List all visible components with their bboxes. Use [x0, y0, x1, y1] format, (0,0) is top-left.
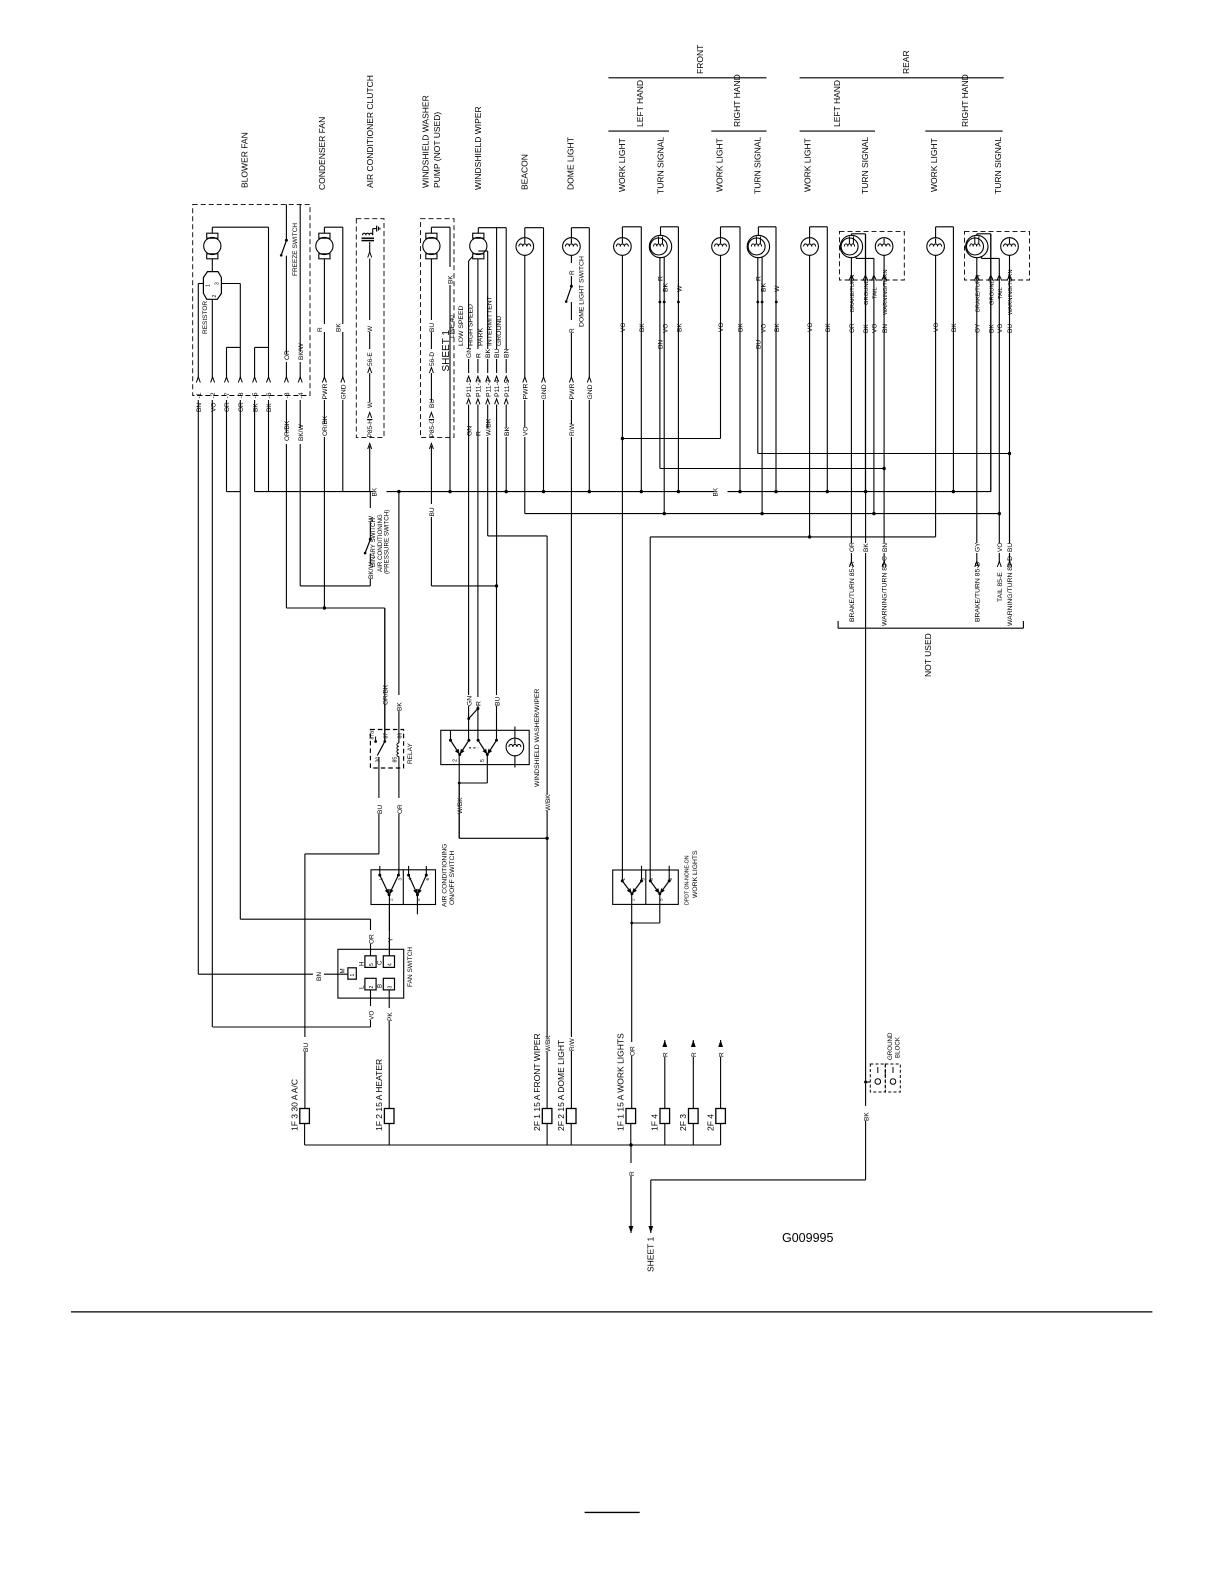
svg-text:4: 4 [388, 963, 394, 966]
svg-text:RIGHT HAND: RIGHT HAND [732, 74, 742, 127]
svg-text:BU: BU [494, 348, 501, 358]
svg-text:WORK LIGHTS: WORK LIGHTS [692, 850, 699, 898]
svg-text:BK: BK [639, 323, 646, 332]
svg-text:1F 2 15 A HEATER: 1F 2 15 A HEATER [374, 1059, 384, 1131]
svg-text:CONDENSER FAN: CONDENSER FAN [317, 117, 327, 190]
svg-text:BK: BK [335, 323, 342, 332]
svg-text:VO: VO [807, 323, 814, 332]
svg-text:FRONT: FRONT [695, 45, 705, 74]
svg-text:BK: BK [372, 487, 379, 496]
svg-text:BU: BU [1007, 324, 1014, 333]
svg-text:VO: VO [933, 323, 940, 332]
svg-text:2: 2 [453, 759, 459, 762]
svg-text:OR/BK: OR/BK [383, 684, 390, 705]
svg-text:3: 3 [640, 878, 645, 881]
svg-text:C: C [377, 960, 384, 965]
svg-text:BK: BK [825, 323, 832, 332]
svg-text:DPDT ON-NONE-ON: DPDT ON-NONE-ON [684, 855, 690, 905]
svg-text:PUMP (NOT USED): PUMP (NOT USED) [432, 112, 442, 188]
svg-text:G009995: G009995 [782, 1231, 833, 1245]
svg-text:OR: OR [849, 323, 856, 333]
svg-text:DOME LIGHT: DOME LIGHT [566, 137, 576, 190]
svg-text:WINDSHIELD WIPER: WINDSHIELD WIPER [473, 106, 483, 190]
svg-text:TAIL: TAIL [873, 286, 879, 299]
svg-text:LOW SPEED: LOW SPEED [458, 305, 465, 346]
svg-text:P11-3: P11-3 [485, 379, 492, 397]
svg-text:2F 1 15 A FRONT WIPER: 2F 1 15 A FRONT WIPER [532, 1033, 542, 1131]
svg-text:GN: GN [466, 696, 473, 706]
svg-text:1: 1 [206, 284, 212, 287]
svg-text:56-D: 56-D [429, 352, 436, 366]
svg-text:R/W: R/W [569, 1038, 576, 1052]
svg-text:R: R [476, 701, 483, 706]
svg-text:LINE 40: LINE 40 [449, 315, 456, 338]
svg-text:87: 87 [383, 733, 389, 739]
svg-text:W/BK: W/BK [486, 418, 493, 436]
svg-text:1: 1 [350, 974, 356, 977]
svg-text:-4: -4 [298, 392, 305, 398]
svg-text:5: 5 [416, 898, 421, 901]
svg-text:B: B [377, 984, 384, 988]
svg-text:56-E: 56-E [367, 352, 374, 366]
svg-text:86: 86 [398, 733, 404, 739]
svg-text:Y: Y [387, 937, 394, 942]
svg-text:BN: BN [658, 340, 665, 349]
svg-text:VO: VO [620, 323, 627, 332]
svg-text:BRAKE/TURN 85-B: BRAKE/TURN 85-B [974, 561, 981, 622]
svg-text:P11-2: P11-2 [476, 379, 483, 397]
svg-text:R: R [663, 1052, 670, 1057]
svg-text:-2: -2 [210, 392, 217, 398]
svg-text:BK/W: BK/W [298, 424, 305, 441]
svg-text:PARK: PARK [477, 328, 484, 346]
svg-text:BK: BK [774, 323, 781, 332]
svg-text:OR: OR [397, 804, 404, 814]
svg-text:TURN SIGNAL: TURN SIGNAL [656, 137, 666, 194]
svg-text:NOT USED: NOT USED [923, 633, 933, 677]
svg-text:GY: GY [974, 542, 981, 552]
svg-text:P85-G: P85-G [429, 419, 436, 438]
svg-text:BRAKE/TURN: BRAKE/TURN [975, 275, 981, 312]
svg-text:2: 2 [631, 898, 636, 901]
svg-text:BN: BN [196, 403, 203, 412]
svg-text:1: 1 [379, 878, 384, 881]
svg-text:BK: BK [738, 323, 745, 332]
svg-text:R: R [755, 276, 762, 281]
svg-text:W: W [367, 325, 374, 332]
svg-text:W: W [367, 401, 374, 408]
svg-text:VO: VO [522, 427, 529, 436]
svg-text:BU: BU [303, 1043, 310, 1052]
svg-text:R: R [317, 327, 324, 332]
svg-text:OR: OR [849, 542, 856, 552]
svg-text:6: 6 [668, 878, 673, 881]
svg-text:W/BK: W/BK [545, 794, 552, 811]
svg-text:RESISTOR: RESISTOR [202, 301, 209, 334]
svg-text:-7: -7 [224, 392, 231, 398]
svg-text:TURN SIGNAL: TURN SIGNAL [860, 137, 870, 194]
svg-text:4: 4 [649, 878, 654, 881]
svg-text:2: 2 [369, 986, 375, 989]
svg-text:WORK LIGHT: WORK LIGHT [929, 138, 939, 192]
svg-text:3: 3 [398, 878, 403, 881]
svg-text:BU: BU [377, 805, 384, 814]
svg-text:BK: BK [662, 282, 669, 292]
svg-text:W: W [677, 285, 684, 292]
svg-text:HIGH SPEED: HIGH SPEED [468, 304, 475, 346]
svg-text:GN: GN [466, 348, 473, 358]
svg-text:BK: BK [864, 1112, 871, 1121]
svg-text:H: H [358, 962, 365, 966]
svg-text:R: R [476, 431, 483, 436]
svg-text:3: 3 [388, 986, 394, 989]
svg-text:REAR: REAR [901, 50, 911, 74]
svg-text:BK: BK [266, 403, 273, 412]
svg-text:R: R [691, 1052, 698, 1057]
svg-text:5: 5 [659, 898, 664, 901]
svg-text:AIR CONDITIONING: AIR CONDITIONING [441, 844, 448, 907]
svg-text:LEFT HAND: LEFT HAND [635, 80, 645, 127]
svg-text:1F 3 30 A A/C: 1F 3 30 A A/C [289, 1079, 299, 1131]
svg-text:M: M [340, 968, 347, 973]
svg-text:2F 4: 2F 4 [705, 1114, 715, 1131]
svg-text:BK: BK [713, 487, 720, 496]
svg-text:P11-1: P11-1 [466, 379, 473, 397]
svg-text:BU: BU [755, 340, 762, 349]
svg-text:R: R [719, 1052, 726, 1057]
svg-text:OR: OR [630, 1046, 637, 1056]
svg-text:2: 2 [212, 295, 218, 298]
svg-text:R: R [658, 276, 665, 281]
svg-text:BK: BK [863, 543, 870, 552]
svg-text:BN: BN [882, 324, 889, 333]
svg-text:R: R [569, 270, 576, 275]
svg-text:BLOCK: BLOCK [894, 1036, 901, 1058]
svg-text:PWR: PWR [322, 384, 329, 400]
svg-text:TURN SIGNAL: TURN SIGNAL [753, 137, 763, 194]
svg-text:P11-5: P11-5 [504, 379, 511, 397]
svg-text:R/W: R/W [569, 423, 576, 437]
svg-text:BK: BK [951, 323, 958, 332]
svg-text:-3: -3 [284, 392, 291, 398]
svg-text:2: 2 [388, 898, 393, 901]
svg-text:-5: -5 [252, 392, 259, 398]
svg-text:BK: BK [252, 403, 259, 412]
svg-text:WORK LIGHT: WORK LIGHT [617, 138, 627, 192]
svg-text:R: R [475, 353, 482, 358]
svg-text:LEFT HAND: LEFT HAND [832, 80, 842, 127]
svg-text:FREEZE SWITCH: FREEZE SWITCH [292, 223, 299, 276]
svg-text:GND: GND [340, 384, 347, 399]
svg-text:WORK LIGHT: WORK LIGHT [803, 138, 813, 192]
svg-text:GROUND: GROUND [864, 279, 870, 305]
svg-text:BK: BK [989, 324, 996, 333]
svg-text:BEACON: BEACON [520, 154, 530, 190]
svg-text:BK/W: BK/W [298, 343, 305, 360]
svg-text:TAIL 85-E: TAIL 85-E [997, 572, 1004, 602]
svg-text:2F 3: 2F 3 [678, 1114, 688, 1131]
svg-text:OR: OR [238, 402, 245, 412]
svg-text:INTERMITTENT: INTERMITTENT [486, 296, 493, 346]
svg-text:BK: BK [677, 323, 684, 332]
svg-text:VO: VO [368, 1011, 375, 1020]
svg-text:BU: BU [429, 323, 436, 332]
svg-text:1: 1 [621, 878, 626, 881]
svg-text:TURN SIGNAL: TURN SIGNAL [993, 137, 1003, 194]
svg-text:-6: -6 [266, 392, 273, 398]
svg-text:GN: GN [466, 426, 473, 436]
svg-text:GND: GND [541, 384, 548, 399]
svg-text:GROUND: GROUND [887, 1032, 894, 1060]
svg-text:WARNING/TURN: WARNING/TURN [1008, 269, 1014, 315]
svg-text:W/BK: W/BK [457, 797, 464, 814]
svg-text:2F 2 15 A DOME LIGHT: 2F 2 15 A DOME LIGHT [556, 1040, 566, 1131]
svg-text:5: 5 [369, 963, 375, 966]
svg-text:W/BK: W/BK [545, 1035, 552, 1052]
svg-text:WARNING/TURN: WARNING/TURN [883, 269, 889, 315]
svg-text:BU: BU [494, 696, 501, 706]
svg-text:VO: VO [662, 324, 669, 333]
svg-text:P85-H: P85-H [367, 419, 374, 438]
svg-text:BU: BU [429, 399, 436, 408]
svg-text:PWR: PWR [569, 384, 576, 400]
svg-text:GY: GY [974, 323, 981, 333]
svg-text:1F 1 15 A WORK LIGHTS: 1F 1 15 A WORK LIGHTS [616, 1033, 626, 1131]
svg-text:6: 6 [425, 878, 430, 881]
svg-text:BN: BN [504, 348, 511, 358]
svg-text:FAN SWITCH: FAN SWITCH [407, 947, 414, 987]
svg-text:VO: VO [997, 543, 1004, 552]
svg-text:BRAKE/TURN 85-A: BRAKE/TURN 85-A [849, 561, 856, 622]
svg-text:5: 5 [480, 759, 486, 762]
svg-text:BK: BK [485, 348, 492, 358]
svg-text:BK: BK [448, 275, 455, 284]
svg-text:OR/BK: OR/BK [284, 420, 291, 441]
svg-text:WARNING/TURN 85-D: WARNING/TURN 85-D [1007, 556, 1014, 626]
svg-text:BK: BK [863, 324, 870, 333]
svg-text:BN: BN [882, 543, 889, 552]
svg-text:WINDSHIELD WASHER/WIPER: WINDSHIELD WASHER/WIPER [534, 689, 541, 787]
svg-text:DOME LIGHT SWITCH: DOME LIGHT SWITCH [578, 256, 585, 327]
svg-text:BK: BK [397, 702, 404, 711]
svg-text:VO: VO [760, 324, 767, 333]
svg-text:BRAKE/TURN: BRAKE/TURN [850, 275, 856, 312]
svg-text:3: 3 [215, 282, 221, 285]
svg-text:OR/BK: OR/BK [322, 415, 329, 436]
svg-text:W: W [774, 285, 781, 292]
svg-text:R: R [569, 328, 576, 333]
svg-text:OR: OR [284, 350, 291, 360]
svg-text:GND: GND [587, 384, 594, 399]
svg-text:4: 4 [407, 878, 412, 881]
svg-text:P11-4: P11-4 [494, 379, 501, 397]
svg-text:OR: OR [224, 402, 231, 412]
svg-text:VO: VO [210, 403, 217, 412]
svg-text:GROUND: GROUND [496, 316, 503, 346]
svg-text:-1: -1 [196, 392, 203, 398]
svg-text:RELAY: RELAY [407, 743, 414, 764]
svg-text:BU: BU [1007, 543, 1014, 552]
svg-text:RIGHT HAND: RIGHT HAND [960, 74, 970, 127]
svg-text:SHEET 1: SHEET 1 [646, 1236, 656, 1272]
svg-text:BN: BN [316, 972, 323, 981]
svg-text:WINDSHIELD WASHER: WINDSHIELD WASHER [421, 95, 431, 188]
svg-text:PWR: PWR [522, 384, 529, 400]
svg-text:BK: BK [504, 426, 511, 436]
svg-text:OR: OR [368, 934, 375, 944]
svg-text:1F 4: 1F 4 [650, 1114, 660, 1131]
svg-text:BK: BK [760, 282, 767, 292]
svg-text:WORK LIGHT: WORK LIGHT [715, 138, 725, 192]
svg-text:PK: PK [387, 1012, 394, 1021]
svg-text:87a: 87a [369, 731, 375, 740]
svg-text:VO: VO [997, 324, 1004, 333]
svg-text:VO: VO [872, 324, 879, 333]
svg-text:AIR CONDITIONER CLUTCH: AIR CONDITIONER CLUTCH [365, 75, 375, 188]
svg-text:WARNING/TURN 85-C: WARNING/TURN 85-C [882, 556, 889, 626]
svg-text:R: R [629, 1171, 636, 1176]
svg-text:L: L [358, 985, 365, 989]
svg-text:BLOWER FAN: BLOWER FAN [240, 132, 250, 188]
svg-text:(PRESSURE SWITCH): (PRESSURE SWITCH) [384, 510, 391, 574]
svg-text:85: 85 [393, 757, 399, 763]
svg-text:ON/OFF SWITCH: ON/OFF SWITCH [449, 851, 456, 905]
svg-text:-8: -8 [238, 392, 245, 398]
svg-text:VO: VO [718, 323, 725, 332]
svg-text:BU: BU [429, 507, 436, 516]
svg-text:TAIL: TAIL [998, 286, 1004, 299]
